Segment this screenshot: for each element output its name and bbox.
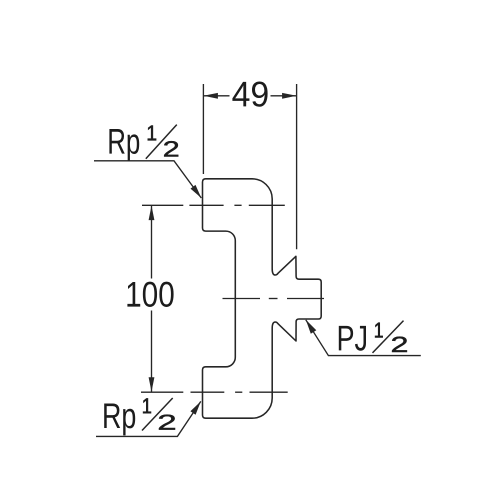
dimension 100 text	[127, 282, 173, 307]
dimension 100 arrows	[149, 206, 155, 221]
centerline top port	[142, 204, 285, 206]
dimension 49 line	[203, 95, 296, 97]
label Rp 1/2 top	[109, 129, 139, 161]
fitting body outline	[203, 179, 322, 418]
dimension 49 arrows	[203, 93, 218, 99]
label PJ 1/2	[339, 326, 366, 351]
dimension 100 line	[151, 206, 153, 392]
leader PJ	[306, 320, 421, 356]
centerline bottom port	[141, 391, 288, 393]
dimension 49 text	[232, 81, 267, 106]
label Rp 1/2 bottom	[104, 403, 135, 435]
dimension 49 extension lines	[203, 84, 296, 249]
leader bottom Rp	[96, 401, 201, 436]
leader top Rp	[94, 161, 201, 198]
centerline middle port	[223, 298, 325, 300]
